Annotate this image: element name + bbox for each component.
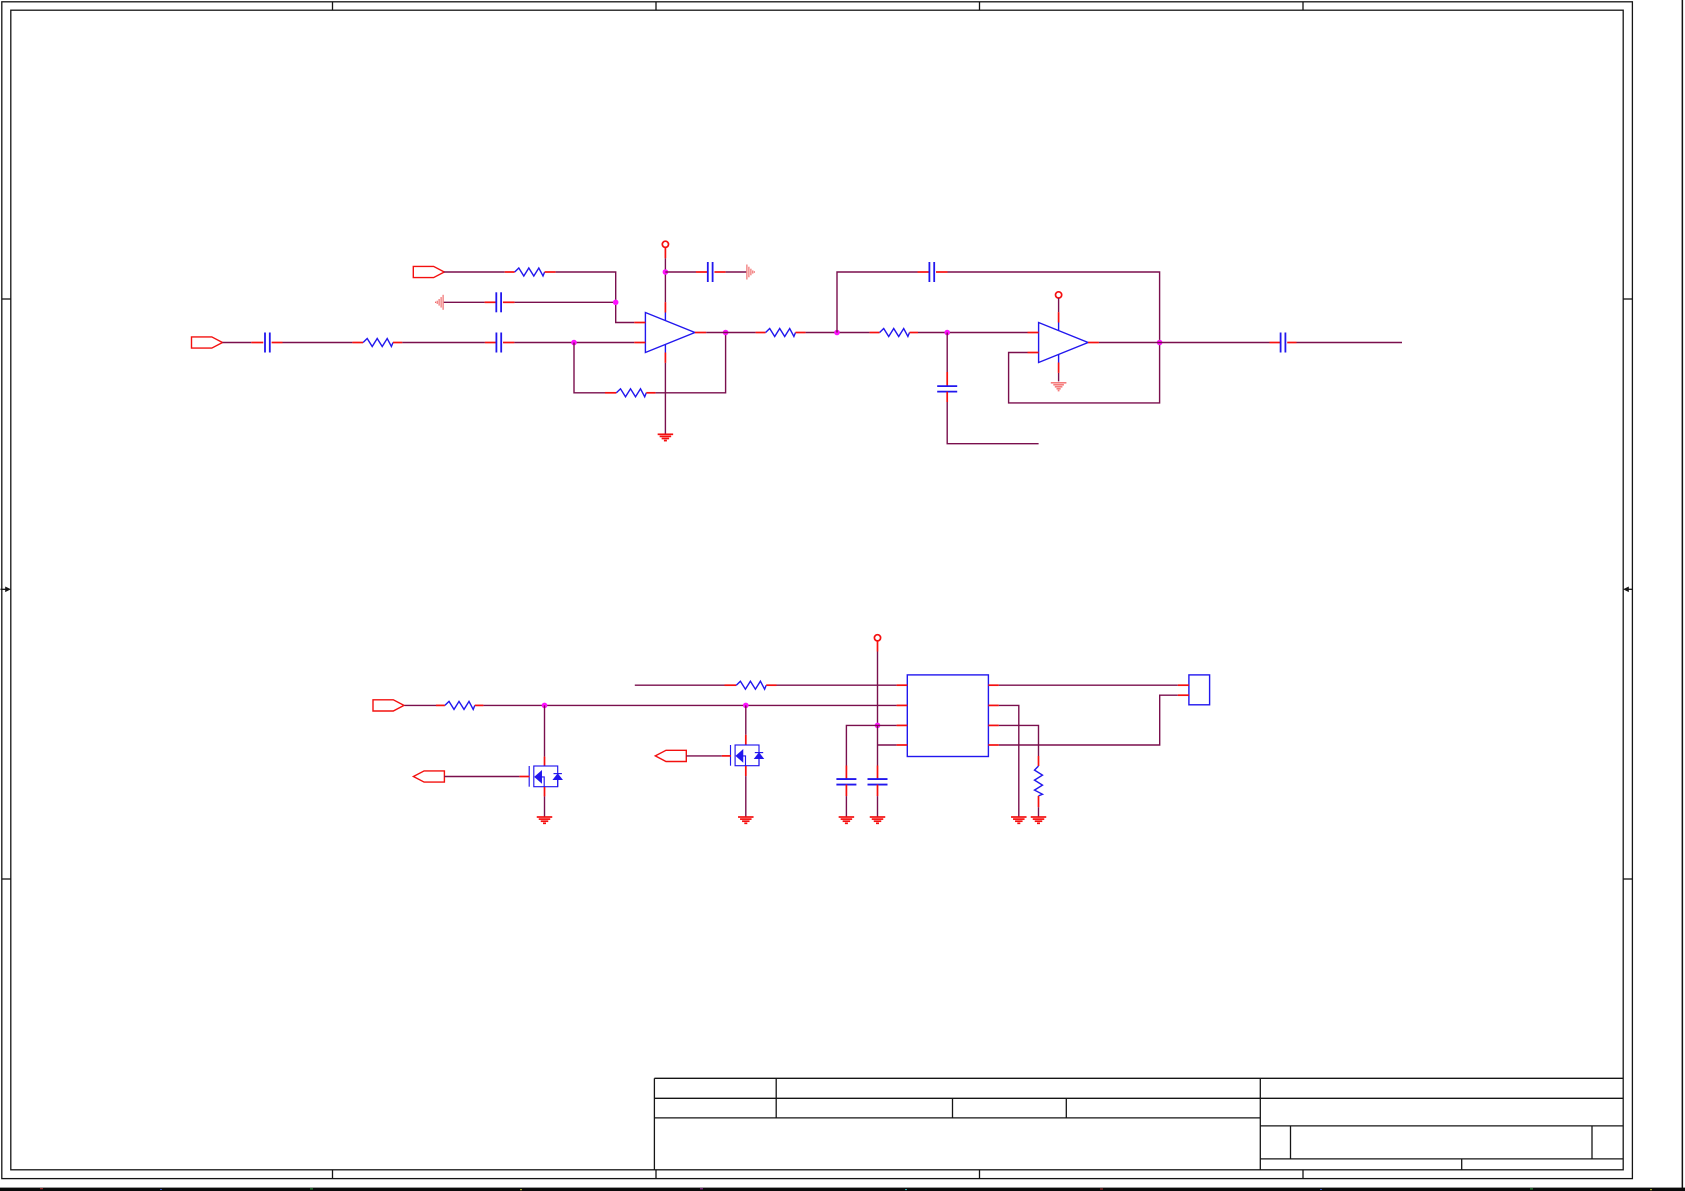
junction node V+ / C4 bbox=[663, 269, 669, 275]
wire IC pin3R to R8 bbox=[999, 725, 1039, 756]
port P5 (Q2 gate control) bbox=[655, 750, 686, 761]
port P3 (Q1 gate control) bbox=[413, 771, 444, 782]
junction node U1 output bbox=[723, 330, 729, 336]
resistor R2 bbox=[505, 268, 556, 276]
title block left section row line 3 bbox=[654, 1117, 1260, 1119]
zone tick top 3 bbox=[979, 2, 981, 10]
wire C6 bottom dangling run bbox=[947, 402, 1038, 444]
junction node C6 tap bbox=[944, 330, 950, 336]
wire P5 to Q2 gate bbox=[686, 755, 721, 757]
wire node down to C9 and branch to IC pin4 bbox=[878, 725, 897, 765]
ground symbol at Q2 bbox=[738, 817, 754, 823]
op-amp U2 bbox=[1028, 312, 1099, 373]
title block left edge bbox=[653, 1078, 655, 1170]
title block center divider bbox=[1259, 1078, 1261, 1170]
wire C7 dangling output bbox=[1297, 342, 1403, 344]
zone tick bottom 1 bbox=[332, 1170, 334, 1179]
title block right cell divider A bbox=[1290, 1126, 1292, 1159]
wire P4 to R6 bbox=[405, 704, 437, 706]
resistor R4 bbox=[756, 329, 806, 337]
wire R7 line start bbox=[635, 684, 725, 686]
wire Q1 source to ground bbox=[544, 796, 546, 816]
wire feedback down-left run bbox=[574, 343, 605, 393]
wire node to Q2 drain bbox=[745, 705, 747, 734]
analog ground symbol (rotated, left of C3) bbox=[436, 295, 444, 310]
wire AGND to C3 bbox=[444, 301, 485, 303]
title block top edge bbox=[654, 1077, 1623, 1079]
wire C5 to U2 output node bbox=[948, 272, 1160, 343]
resistor R7 bbox=[725, 681, 777, 689]
capacitor C9 bbox=[868, 766, 888, 797]
page crop line right edge bbox=[1682, 0, 1684, 1188]
junction node IC pin3 / decoupling bbox=[875, 723, 881, 729]
wire feedback right-up to output bbox=[656, 333, 726, 393]
title block right section row line 3 bbox=[1260, 1125, 1623, 1127]
wire R2 corner down to U1 non-inverting input bbox=[556, 272, 635, 323]
capacitor C3 bbox=[485, 292, 515, 312]
wire R8 to ground bbox=[1038, 807, 1040, 816]
capacitor C2 bbox=[485, 333, 515, 353]
wire C6 branch down bbox=[946, 333, 948, 373]
wire C9 to ground bbox=[877, 796, 879, 816]
capacitor C6 (shunt) bbox=[937, 372, 957, 402]
wire U1 output to R4 bbox=[706, 332, 755, 334]
power symbol VCC at U1 bbox=[662, 241, 668, 258]
wire R7 to IC pin1 bbox=[777, 684, 897, 686]
zone tick right 2 bbox=[1623, 878, 1632, 880]
IC U3 bbox=[897, 675, 999, 757]
wire U1 V- down to ground bbox=[664, 363, 666, 434]
power ground symbol at U2 (salmon) bbox=[1051, 383, 1067, 391]
resistor R5 bbox=[870, 329, 918, 337]
wire node left and down to C8 bbox=[846, 725, 877, 765]
wire junction to C4 bbox=[665, 271, 696, 273]
wire U2 V- to ground bbox=[1058, 373, 1060, 382]
wire C1 to R1 bbox=[283, 342, 353, 344]
wire C5 branch up bbox=[837, 272, 918, 333]
analog ground symbol (rotated, right of C4) bbox=[747, 265, 755, 280]
wire P3 to Q1 gate bbox=[444, 776, 519, 778]
zone tick top 2 bbox=[655, 2, 657, 10]
junction node C5 tap bbox=[834, 330, 840, 336]
capacitor C1 bbox=[251, 333, 282, 353]
centering arrow left edge bbox=[1, 587, 11, 593]
junction node U2 output bbox=[1157, 340, 1163, 346]
connector J1 bbox=[1178, 675, 1210, 705]
op-amp U1 bbox=[634, 302, 706, 363]
junction node at U1 -in bbox=[571, 340, 577, 346]
wire IC pin1R to connector J1 bbox=[999, 684, 1178, 686]
port P1 (main input, top circuit) bbox=[192, 337, 223, 348]
wire Q2 source to ground bbox=[745, 776, 747, 816]
ground symbol at U1 bbox=[658, 434, 674, 440]
ground symbol at C8 bbox=[839, 817, 855, 823]
wire R5 to U2 input bbox=[918, 332, 1028, 334]
wire R4 to R5 bbox=[806, 332, 870, 334]
ground symbol at Q1 bbox=[537, 817, 553, 823]
zone tick left 1 bbox=[2, 298, 11, 300]
resistor R8 (vertical) bbox=[1035, 756, 1043, 807]
wire node to Q1 drain bbox=[544, 705, 546, 756]
page crop strip bottom (noisy black bar) bbox=[0, 1188, 1685, 1191]
power symbol VCC at IC bbox=[874, 635, 880, 652]
wire C4 to analog ground bbox=[726, 271, 747, 273]
wire IC pin4R to connector J1 pin2 bbox=[999, 695, 1178, 745]
wire C8 to ground bbox=[845, 796, 847, 816]
capacitor C4 bbox=[696, 262, 726, 282]
title block row line 2 bbox=[654, 1097, 1623, 1099]
junction node Q2 drain tap bbox=[743, 703, 749, 709]
junction node Q1 drain tap bbox=[542, 703, 548, 709]
title block right cell divider B bbox=[1591, 1126, 1593, 1159]
port P4 (main input, bottom circuit) bbox=[373, 700, 404, 711]
zone tick bottom 4 bbox=[1302, 1170, 1304, 1179]
zone tick bottom 3 bbox=[979, 1170, 981, 1179]
wire C2 to U1 inverting input bbox=[514, 342, 634, 344]
wire P2 to R2 bbox=[444, 271, 505, 273]
ground symbol at pin2R net bbox=[1011, 817, 1027, 823]
wire VCC stub to U2 V+ bbox=[1058, 298, 1060, 312]
wire IC pin2R down to ground bbox=[999, 705, 1019, 816]
ground symbol at R8 bbox=[1031, 817, 1047, 823]
capacitor C7 (output) bbox=[1270, 333, 1297, 353]
zone tick bottom 2 bbox=[655, 1170, 657, 1179]
title block left col divider B bbox=[952, 1098, 954, 1118]
zone tick top 4 bbox=[1302, 2, 1304, 10]
zone tick left 2 bbox=[2, 878, 11, 880]
wire node to IC pin3 bbox=[878, 724, 897, 726]
ground symbol at C9 bbox=[870, 817, 886, 823]
resistor R3 (feedback) bbox=[605, 389, 656, 397]
resistor R1 bbox=[352, 339, 402, 347]
title block right section row line 4 bbox=[1260, 1158, 1623, 1160]
title block bottom row divider bbox=[1461, 1159, 1463, 1170]
centering arrow right edge bbox=[1623, 587, 1632, 593]
wire VCC stub to junction bbox=[664, 258, 666, 302]
wire U2 feedback loop bbox=[1009, 343, 1160, 403]
title block left col divider A bbox=[775, 1078, 777, 1118]
transistor Q1 bbox=[519, 757, 562, 797]
title block left col divider C bbox=[1065, 1098, 1067, 1118]
wire VCC down to pin3 node bbox=[877, 652, 879, 726]
capacitor C8 bbox=[836, 766, 856, 797]
wire P1 to C1 bbox=[223, 342, 252, 344]
power symbol VCC at U2 bbox=[1056, 292, 1062, 298]
capacitor C5 (feedback) bbox=[918, 262, 948, 282]
wire R6 to IC pin2 bbox=[483, 704, 896, 706]
wire C3 to node on P2 branch bbox=[515, 301, 616, 303]
wire R1 to C2 bbox=[402, 342, 485, 344]
transistor Q2 bbox=[722, 735, 764, 776]
resistor R6 bbox=[436, 701, 483, 709]
junction node C3/P2 branch bbox=[613, 300, 619, 306]
wire U2 output to C7 bbox=[1099, 342, 1270, 344]
port P2 (second input, top circuit) bbox=[413, 266, 444, 277]
zone tick top 1 bbox=[332, 2, 334, 10]
zone tick right 1 bbox=[1623, 298, 1632, 300]
